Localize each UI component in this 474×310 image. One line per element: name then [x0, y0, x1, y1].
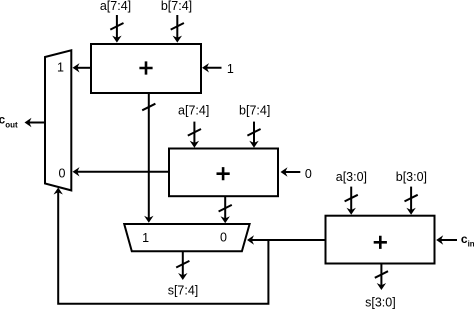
svg-text:0: 0	[220, 230, 227, 244]
svg-text:s[7:4]: s[7:4]	[168, 284, 199, 298]
svg-text:s[3:0]: s[3:0]	[365, 295, 396, 309]
svg-text:a[3:0]: a[3:0]	[336, 170, 367, 184]
svg-text:b[7:4]: b[7:4]	[239, 104, 270, 118]
svg-text:0: 0	[305, 167, 312, 181]
svg-text:1: 1	[57, 61, 64, 75]
svg-text:b[7:4]: b[7:4]	[161, 0, 192, 13]
svg-text:1: 1	[142, 231, 149, 245]
svg-text:a[7:4]: a[7:4]	[100, 0, 131, 13]
svg-text:0: 0	[59, 166, 66, 180]
svg-text:b[3:0]: b[3:0]	[396, 170, 427, 184]
svg-text:1: 1	[227, 62, 234, 76]
svg-text:a[7:4]: a[7:4]	[178, 104, 209, 118]
